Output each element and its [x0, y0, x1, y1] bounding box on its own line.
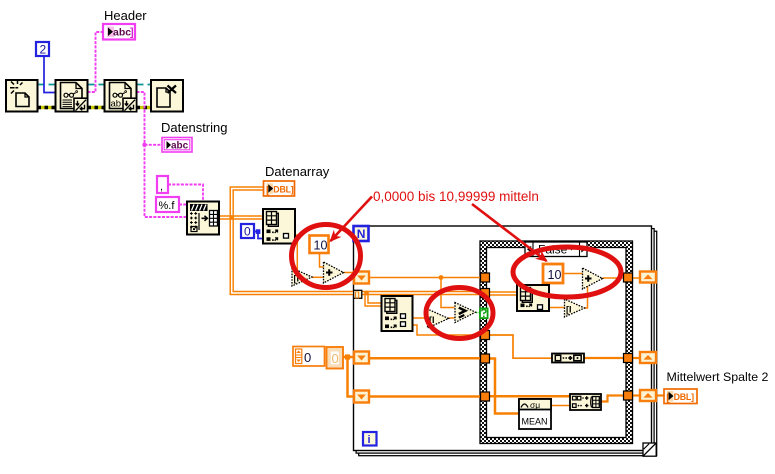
constant 0 framed	[327, 347, 344, 369]
case tunnel right row3	[624, 391, 633, 400]
svg-text:10: 10	[314, 239, 328, 253]
svg-text:σμ: σμ	[530, 400, 540, 410]
wire dbl add out to shift register	[344, 272, 355, 274]
wire 2D array case tunnel to index3	[490, 291, 518, 295]
svg-text:abc: abc	[171, 141, 189, 152]
indicator Datenarray DBL array	[264, 181, 295, 196]
svg-text:MEAN: MEAN	[522, 417, 548, 427]
wire error cluster node3-node4	[137, 106, 152, 109]
shift register right 2	[640, 352, 656, 363]
wire dbl conversion3 up to add2	[585, 286, 588, 309]
svg-text:%.f: %.f	[159, 200, 176, 212]
wire refnum teal node3-node4	[137, 84, 152, 86]
wire int32 0 constant to index node	[254, 229, 263, 238]
wire string comma constant to node top	[168, 185, 203, 202]
case selector terminal	[480, 309, 488, 319]
wire array insert out to case tunnel right row3	[601, 396, 624, 402]
annotation red circle 3	[426, 288, 493, 339]
wire error cluster node1-node2	[38, 106, 56, 109]
svg-text:2: 2	[40, 43, 47, 57]
svg-text:0: 0	[332, 351, 339, 366]
svg-text:0: 0	[244, 225, 251, 239]
case selector label "False"	[525, 242, 587, 257]
svg-text:0,0000 bis 10,99999 mitteln: 0,0000 bis 10,99999 mitteln	[373, 189, 539, 204]
svg-text:Datenarray: Datenarray	[265, 164, 330, 179]
wire string %.f constant to node	[179, 204, 187, 206]
wire dbl index2 out1 to conversion2	[412, 317, 428, 319]
wire array SR3 to case tunnel row3	[369, 395, 481, 398]
wire array node out to case tunnel right row2	[584, 357, 624, 359]
shift register right 3	[640, 390, 656, 401]
shift register left 1	[354, 272, 369, 284]
node Index Array 1	[263, 209, 295, 244]
wire dbl case tunnel 335 to array node	[490, 335, 553, 358]
constant 0 int32	[241, 224, 254, 239]
case tunnel right row1	[624, 273, 633, 282]
wire dbl case tunnel right row1 to SR up1	[633, 277, 641, 279]
svg-text:10: 10	[548, 268, 562, 282]
indicator Datenstring string	[162, 138, 192, 153]
loop count terminal N	[354, 226, 369, 241]
constant 10 a	[310, 236, 329, 254]
wire string branch to Datenstring indicator	[145, 144, 163, 146]
node Read Text File 1	[56, 80, 88, 112]
shift register left 2	[354, 352, 369, 364]
constant comma string	[157, 176, 168, 193]
case tunnel left row3	[481, 392, 490, 401]
constant 2	[36, 42, 49, 57]
wire array case tunnel right row2 to SR up2	[633, 357, 641, 359]
case tunnel left 335	[481, 331, 490, 340]
wire string node2 to Header indicator	[88, 32, 104, 92]
wire dbl add2 to case tunnel right row1	[603, 277, 624, 279]
wire dbl conversion2 to comparator	[449, 317, 455, 319]
case tunnel right row2	[624, 354, 633, 363]
wire int32 from constant 2 to node2	[44, 56, 55, 93]
constant 10 b in case	[543, 264, 563, 283]
wire refnum teal node2-node3	[88, 84, 105, 86]
node Index Array 3 in case	[517, 285, 549, 311]
svg-text:0: 0	[304, 350, 311, 365]
wire dbl 10 constant to add	[320, 253, 324, 267]
wire dbl index2 out2 to case tunnel	[412, 325, 481, 335]
constant %.f string	[156, 197, 179, 212]
svg-text:,: ,	[160, 181, 163, 193]
conversion node 2 in loop	[428, 309, 449, 328]
node Open/Create/Replace File	[6, 80, 38, 112]
node array subset small	[552, 354, 584, 363]
svg-text:abc: abc	[113, 27, 131, 39]
for-loop fold corner	[643, 443, 656, 456]
svg-text:Header: Header	[104, 8, 147, 23]
case tunnel left row1	[481, 273, 490, 282]
node Read Text File 2 ab	[105, 80, 137, 112]
node Index Array 2 in loop	[382, 296, 413, 331]
shift register right 1	[640, 272, 656, 283]
annotation red arrow 1	[331, 197, 373, 242]
wire dbl SR up3 to Mittelwert indicator	[656, 394, 664, 396]
wire 2D array spreadsheet out to index node / indicator / loop tunnel	[219, 189, 354, 294]
add node 2 in case	[583, 268, 603, 289]
wire dbl conversion to add	[312, 276, 324, 278]
wire array case tunnel right row3 to SR up3	[633, 394, 641, 396]
svg-text:DBL]: DBL]	[273, 184, 293, 194]
wire array 0 constants to shift registers left	[343, 354, 354, 396]
conversion node 1	[292, 268, 312, 286]
wire 2D array inside loop tunnel to case / index node	[362, 291, 482, 305]
loop array tunnel	[354, 290, 362, 299]
svg-text:[I: [I	[566, 304, 572, 314]
svg-text:Mittelwert Spalte 2: Mittelwert Spalte 2	[667, 370, 769, 384]
indicator Header string	[103, 24, 135, 40]
wire dbl index out to conversion	[295, 235, 297, 272]
node Insert Into Array	[570, 394, 601, 410]
wire dbl case 10 to add2	[563, 273, 583, 275]
annotation red circle 2	[513, 247, 621, 297]
wire dbl shift register to case tunnel row1 with branch to comparator	[369, 275, 481, 307]
wire array case tunnel row3 to insert node	[490, 395, 571, 398]
wire array SR2 to case tunnel row2	[369, 357, 481, 360]
svg-text:[]: []	[355, 290, 360, 299]
indicator Mittelwert DBL	[664, 389, 697, 404]
shift register left 3	[354, 391, 369, 403]
comparator greater-equal node	[455, 303, 476, 323]
case tunnel left 2D array	[481, 289, 490, 298]
svg-text:]: ]	[130, 27, 134, 39]
node Spreadsheet String To Array	[187, 202, 219, 235]
junction string wire	[142, 143, 146, 147]
svg-text:i: i	[368, 434, 371, 446]
control 0 numeric	[293, 347, 325, 367]
svg-text:Datenstring: Datenstring	[161, 120, 227, 135]
annotation red circle 1	[292, 225, 361, 288]
wire string node3 to Datenstring and spreadsheet node	[137, 92, 188, 217]
node Mean	[519, 399, 551, 429]
wire error cluster node2-node3	[88, 106, 105, 109]
wire refnum teal node1-node2	[38, 84, 56, 86]
svg-text:DBL]: DBL]	[674, 392, 694, 402]
node Close File	[151, 80, 183, 112]
wire boolean comparator to selector	[476, 312, 480, 314]
loop iteration terminal i	[363, 432, 377, 446]
for-loop frame (stacked sheets)	[354, 226, 657, 456]
annotation red arrow 2	[472, 204, 547, 261]
case structure border	[480, 241, 633, 444]
conversion node 3 in case	[565, 299, 585, 317]
case tunnel left row2	[481, 354, 490, 363]
svg-text:ab: ab	[111, 99, 122, 110]
wire dbl index3 to conversion3	[549, 307, 565, 309]
wire array case tunnel row2 to MEAN input	[490, 359, 520, 414]
wire dbl MEAN to insert node	[551, 405, 570, 407]
add node 1	[324, 262, 344, 283]
